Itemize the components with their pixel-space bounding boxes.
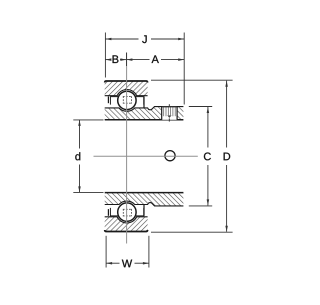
set screw hole seen through bore [165,151,175,161]
set screw in collar [162,104,177,121]
outer ring bottom section (hatched) [105,217,148,232]
dimension J extension line right [183,33,185,105]
bore bottom line [105,192,184,194]
dimension C extension lines [189,106,212,108]
vertical ball centerline [126,53,128,244]
label D [224,153,231,161]
outer ring top band inner edge with raceway arc [105,90,148,96]
dimension C line and arrows [207,107,209,205]
label C [204,153,211,161]
ball top hidden square [123,96,132,103]
cage (retainer) bottom [110,208,143,216]
horizontal centerline [94,155,198,157]
inner ring + collar top section (hatched) [105,107,184,120]
inner ring top surface profile with raceway arc and relief notch [105,107,184,112]
outer ring top section (hatched) [105,81,148,96]
label A [152,55,159,63]
outer ring OD top line [105,81,148,83]
outer ring bottom band inner edge with raceway arc [105,217,148,223]
seal lip line top-left [107,97,109,104]
dimension J line and arrows [105,38,184,40]
label d [75,152,80,160]
ball top [118,91,136,109]
dimension A line and arrows [126,59,184,61]
dimension W line and arrows [106,262,149,264]
bore top line [105,119,184,121]
seal lip line top-right [143,97,145,108]
inner ring + collar bottom section (hatched) [105,193,184,206]
cage (retainer) top [110,97,143,105]
ball bottom [118,203,136,221]
dimension B line and arrows [105,59,126,61]
label J [142,35,147,43]
dimension J extension line left [104,33,106,78]
dimension W extension lines [105,236,107,268]
seal lip line bottom-right [143,205,145,216]
inner ring bottom surface profile with raceway arc and relief notch [105,201,184,206]
seal lip line bottom-left [107,209,109,216]
dimension D line and arrows [226,81,228,232]
dimension D extension lines [151,79,233,81]
dimension d line and arrows [79,120,81,192]
label W [122,260,132,268]
ball bottom hidden square [123,209,132,216]
label B [113,55,119,63]
dimension d extension lines [73,119,103,121]
dimension B/A middle extension line [126,53,128,67]
outer ring OD bottom line [105,230,148,232]
